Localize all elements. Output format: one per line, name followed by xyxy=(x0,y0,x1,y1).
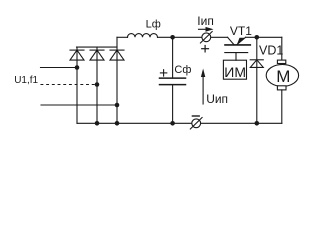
motor M brush top xyxy=(277,60,285,63)
wire: top rail from inductor to VT1 xyxy=(158,36,228,38)
polarity minus of output xyxy=(192,115,199,117)
terminal: plus output clamp (circle with slash) xyxy=(200,32,212,44)
diode D2 of rectifier xyxy=(90,50,104,60)
motor M body xyxy=(266,64,298,86)
wire: input phase line 2 (dashed) xyxy=(41,84,97,86)
diode D3 of rectifier xyxy=(110,50,124,60)
svg-text:Iип: Iип xyxy=(197,14,214,28)
transistor VT1 xyxy=(225,37,251,60)
wire: rectifier leg 3 vertical xyxy=(116,37,118,123)
label plus at top terminal xyxy=(201,45,209,53)
current arrow Iип xyxy=(199,27,214,32)
svg-text:Lф: Lф xyxy=(146,19,161,31)
svg-text:VD1: VD1 xyxy=(259,44,283,58)
svg-text:Сф: Сф xyxy=(174,64,191,76)
svg-text:ИМ: ИМ xyxy=(224,64,246,80)
inductor L filter (4 humps) xyxy=(128,34,158,38)
diode D1 of rectifier xyxy=(70,50,84,60)
svg-text:М: М xyxy=(276,67,290,86)
wire: top rail from leg3 to inductor xyxy=(117,36,128,38)
node: junction of VD1 on top rail xyxy=(254,35,259,40)
node: junction of capacitor branch xyxy=(170,35,175,40)
wire: motor to bottom rail xyxy=(281,90,283,123)
wire: input phase line 1 xyxy=(41,67,78,69)
terminal: minus output clamp (circle with slash) xyxy=(190,118,202,130)
node: junction of capacitor on bottom rail xyxy=(170,121,175,126)
node: junction of phase 3 on leg 3 xyxy=(115,103,120,108)
wire: rectifier leg 2 vertical xyxy=(96,47,98,123)
node: junction of leg2 on bottom rail xyxy=(95,121,100,126)
svg-text:Uип: Uип xyxy=(206,92,228,106)
svg-text:VT1: VT1 xyxy=(230,24,252,38)
wire: rectifier leg 1 vertical xyxy=(76,47,78,123)
node: junction of VD1 on bottom rail xyxy=(254,121,259,126)
block ИМ (pulse modulator) xyxy=(223,60,246,79)
svg-text:U1,f1: U1,f1 xyxy=(14,75,38,86)
wire: top rail from VT1 to motor corner xyxy=(246,36,282,38)
wire: input phase line 3 xyxy=(41,104,117,106)
wire: rectifier top bus xyxy=(77,46,118,48)
capacitor C filter xyxy=(160,37,186,123)
wire: bottom rail xyxy=(77,122,282,124)
wire: right drop to motor xyxy=(281,37,283,60)
node: junction of leg3 on bottom rail xyxy=(115,121,120,126)
polarity plus of capacitor xyxy=(160,70,166,76)
diode VD1 xyxy=(250,37,263,123)
voltage arrow Uип xyxy=(201,69,205,105)
node: junction of phase 1 on leg 1 xyxy=(75,65,80,70)
motor M brush bottom xyxy=(277,86,286,90)
node: junction of phase 2 on leg 2 xyxy=(95,82,100,87)
